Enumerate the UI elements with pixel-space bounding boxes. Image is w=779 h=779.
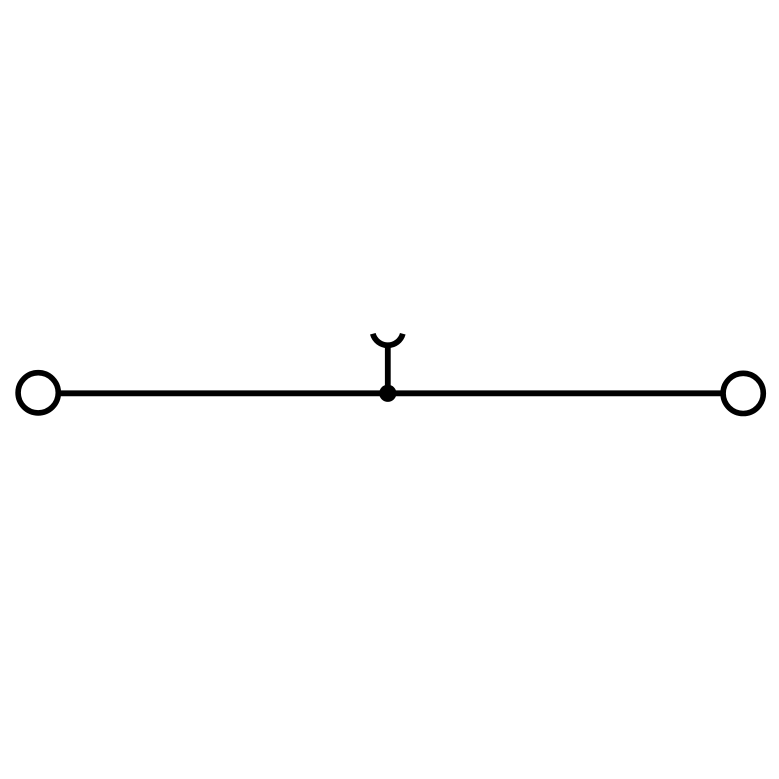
terminal circle left bbox=[18, 373, 58, 413]
wire (right segment) bbox=[388, 390, 721, 396]
terminal circle right bbox=[723, 373, 763, 413]
wire (test-tap stub) bbox=[385, 345, 391, 394]
test tap arc (test point) bbox=[373, 334, 403, 345]
wire (left segment) bbox=[61, 390, 388, 396]
junction dot bbox=[379, 385, 396, 402]
